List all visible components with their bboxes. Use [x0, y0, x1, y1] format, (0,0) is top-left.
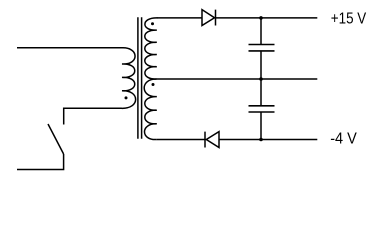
- wire: top rail (+15V) left of diode: [157, 17, 202, 19]
- junction node bottom rail: [259, 138, 263, 142]
- wire: bottom rail (-4V) left of diode: [157, 139, 205, 141]
- transformer primary winding: [122, 48, 136, 109]
- junction node middle rail: [259, 77, 263, 81]
- capacitor C2: [249, 106, 275, 112]
- switch S1 blade: [48, 124, 64, 154]
- junction node top rail: [259, 16, 263, 20]
- svg-text:+15 V: +15 V: [331, 10, 367, 27]
- diode D2: [205, 132, 219, 148]
- wire: filter column vertical: [260, 18, 262, 140]
- polarity dot: primary: [125, 96, 128, 99]
- svg-text:-4 V: -4 V: [330, 131, 357, 148]
- capacitor C1: [249, 45, 275, 51]
- wire: top rail (+15V) right of diode: [216, 17, 318, 19]
- polarity dot: secondary upper: [151, 22, 154, 25]
- wire: AC input top lead: [17, 47, 122, 49]
- wire: center-tap middle rail: [157, 78, 317, 80]
- polarity dot: secondary lower: [152, 83, 155, 86]
- wire: primary bottom to switch contact: [64, 108, 122, 124]
- transformer core: [138, 17, 142, 139]
- transformer secondary upper winding: [145, 18, 158, 79]
- transformer secondary lower winding: [144, 79, 157, 140]
- wire: switch pivot to AC input bottom lead: [17, 154, 64, 170]
- diode D1: [202, 10, 216, 26]
- wire: bottom rail (-4V) right of diode: [219, 139, 317, 141]
